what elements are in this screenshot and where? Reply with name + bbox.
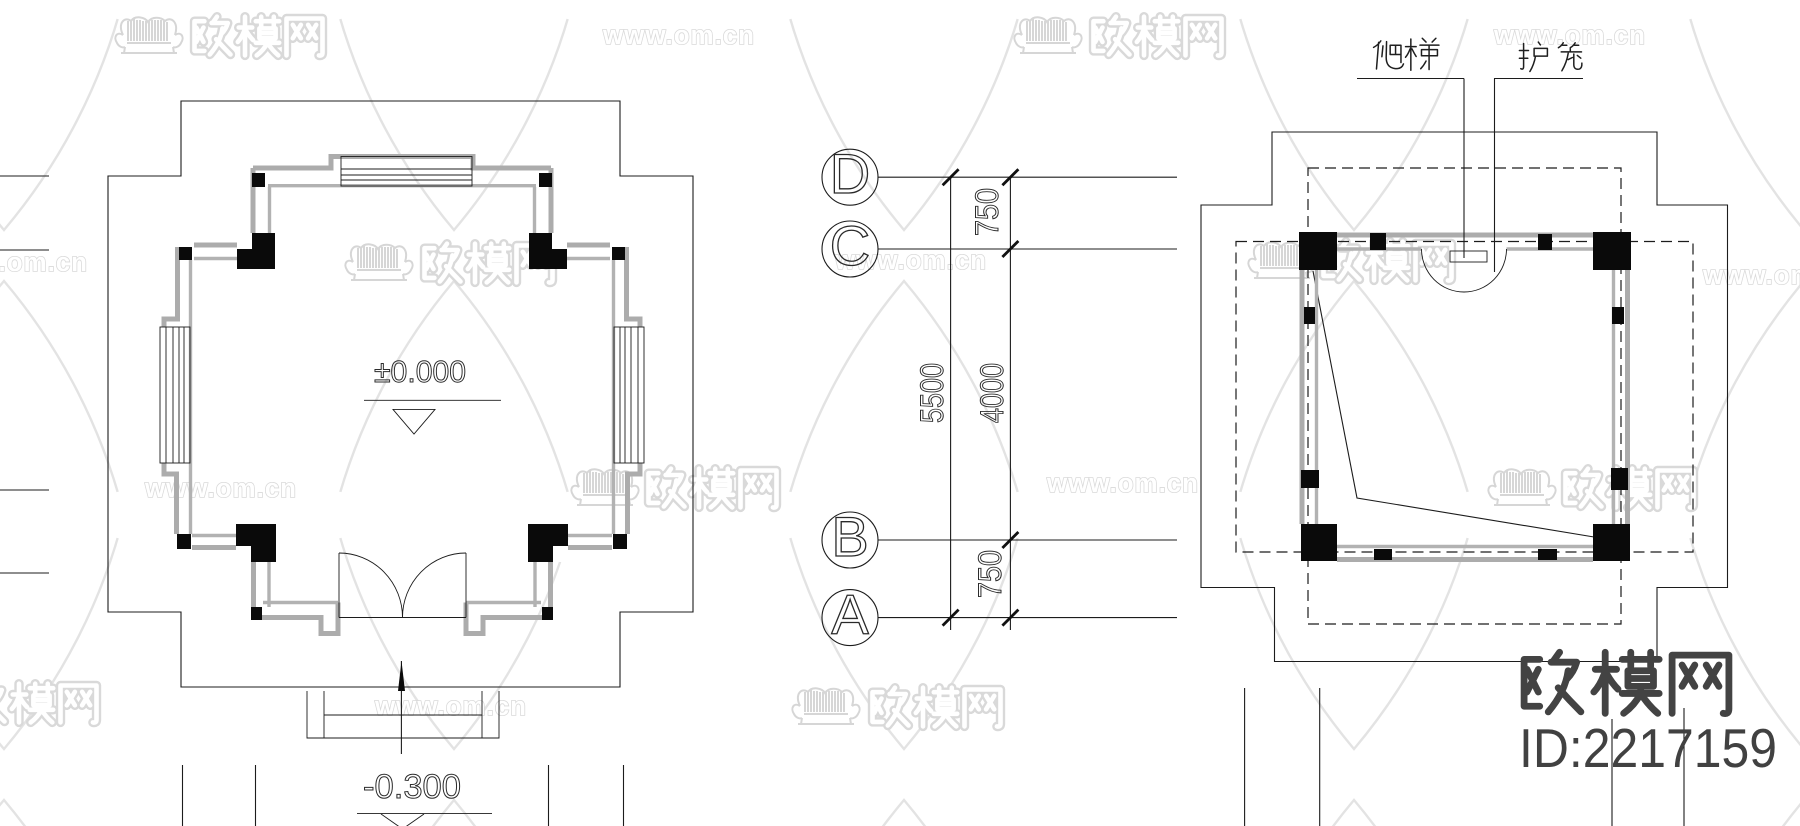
- svg-text:ID:2217159: ID:2217159: [1519, 717, 1777, 779]
- svg-text:www.om.cn: www.om.cn: [1702, 260, 1800, 290]
- svg-text:www.om.cn: www.om.cn: [144, 473, 297, 503]
- svg-text:www.om.cn: www.om.cn: [1046, 468, 1199, 498]
- svg-text:4000: 4000: [974, 363, 1010, 423]
- svg-text:www.om.cn: www.om.cn: [1493, 20, 1646, 50]
- svg-text:www.om.cn: www.om.cn: [0, 247, 88, 277]
- svg-text:5500: 5500: [914, 363, 950, 423]
- svg-text:750: 750: [969, 188, 1005, 236]
- svg-text:±0.000: ±0.000: [374, 354, 466, 389]
- svg-text:D: D: [830, 142, 870, 205]
- svg-text:B: B: [831, 505, 868, 568]
- svg-text:750: 750: [972, 550, 1008, 598]
- svg-text:www.om.cn: www.om.cn: [374, 691, 527, 721]
- svg-text:A: A: [831, 583, 869, 646]
- svg-text:www.om.cn: www.om.cn: [602, 20, 755, 50]
- svg-text:-0.300: -0.300: [363, 768, 461, 806]
- svg-text:C: C: [830, 214, 870, 277]
